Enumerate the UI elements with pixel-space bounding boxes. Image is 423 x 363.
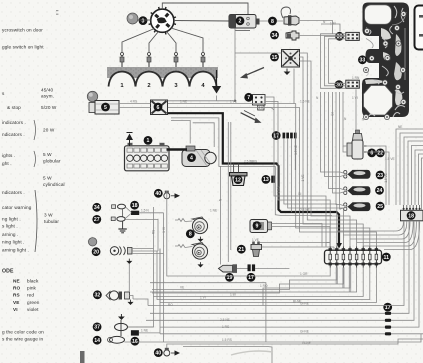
- wire label: [300, 272, 308, 276]
- side lamp C: [106, 291, 130, 300]
- svg-text:7: 7: [247, 95, 250, 101]
- wire label: [352, 76, 360, 80]
- svg-text:5/20 W: 5/20 W: [41, 105, 57, 110]
- headlamp B: [110, 247, 132, 256]
- wire: [167, 339, 423, 348]
- svg-text:1,5 N: 1,5 N: [141, 209, 149, 213]
- wire: [171, 118, 332, 216]
- wire: [125, 341, 164, 343]
- wire label: [152, 230, 156, 234]
- svg-text:5 W: 5 W: [43, 152, 52, 157]
- wire: [132, 248, 154, 250]
- svg-text:22: 22: [377, 151, 383, 157]
- ground (horn 2): [197, 262, 203, 267]
- node 14: [93, 336, 102, 345]
- wire: [171, 28, 203, 53]
- svg-text:globular: globular: [43, 159, 61, 164]
- wire: [130, 296, 134, 300]
- svg-text:ndicators .: ndicators .: [2, 132, 25, 137]
- wire: [159, 249, 161, 334]
- svg-text:45/40: 45/40: [41, 88, 54, 93]
- spark plug: [120, 53, 124, 68]
- svg-text:VE: VE: [13, 300, 19, 305]
- svg-text:1 BI: 1 BI: [230, 292, 236, 296]
- generator: [89, 101, 119, 115]
- svg-text:6: 6: [157, 105, 160, 111]
- connector 17b: [248, 264, 256, 271]
- connector 30b: [346, 80, 360, 88]
- wire: [234, 28, 236, 100]
- pointer arrow down: [241, 111, 262, 124]
- node 19: [225, 273, 234, 282]
- junction: [234, 100, 236, 102]
- wire: [139, 212, 163, 214]
- wire: [404, 137, 423, 205]
- wire: [132, 250, 158, 252]
- wire label: [300, 330, 309, 334]
- flasher 24: [344, 186, 371, 195]
- main feed cable: [168, 113, 342, 248]
- svg-text:27: 27: [94, 217, 100, 223]
- wire: [227, 122, 229, 262]
- wire: [333, 247, 335, 250]
- horn 1: [192, 217, 208, 234]
- svg-text:1 RS: 1 RS: [222, 325, 229, 329]
- svg-text:1 RS: 1 RS: [277, 186, 281, 193]
- wire: [343, 221, 406, 235]
- svg-text:NE: NE: [13, 279, 20, 284]
- flasher 25: [344, 202, 371, 211]
- wire: [391, 333, 423, 335]
- wire: [126, 207, 132, 213]
- wire label: [244, 159, 254, 163]
- wire: [286, 67, 288, 69]
- svg-text:GI: GI: [331, 112, 335, 115]
- wire: [168, 100, 235, 102]
- node 17c: [383, 303, 392, 312]
- svg-text:20 W: 20 W: [43, 128, 55, 133]
- wire: [321, 24, 340, 32]
- wire: [150, 312, 385, 314]
- svg-text:GI-NE: GI-NE: [300, 330, 309, 334]
- wire: [183, 346, 272, 363]
- wire: [162, 3, 248, 15]
- battery: [125, 143, 170, 171]
- svg-text:1 GR: 1 GR: [300, 272, 308, 276]
- wire: [288, 138, 344, 246]
- sensor 19: [219, 264, 238, 273]
- connector 16a: [131, 211, 139, 215]
- node 17: [272, 131, 281, 140]
- wire: [160, 333, 385, 335]
- node 8b: [186, 229, 195, 238]
- wire label: [277, 186, 281, 193]
- svg-text:ycroswitch on door: ycroswitch on door: [2, 28, 43, 33]
- svg-text:RO: RO: [13, 286, 20, 291]
- fuse box: [325, 247, 382, 268]
- wire: [340, 191, 348, 193]
- wire: [343, 92, 347, 146]
- wire: [230, 122, 232, 250]
- wire: [336, 92, 340, 205]
- plate lamp top: [164, 191, 180, 199]
- svg-text:40: 40: [155, 350, 161, 356]
- wire: [160, 249, 376, 303]
- wire: [340, 175, 348, 177]
- svg-text:red: red: [27, 293, 34, 298]
- wire: [122, 29, 155, 54]
- svg-text:1 NE: 1 NE: [180, 99, 187, 103]
- wire: [119, 103, 151, 105]
- spark plug: [147, 53, 151, 68]
- svg-text:32: 32: [95, 293, 101, 299]
- headlamp D: [108, 320, 128, 343]
- wire: [340, 92, 342, 209]
- svg-text:1.5 RS: 1.5 RS: [222, 338, 232, 342]
- ground (riser C): [126, 259, 132, 264]
- wire: [132, 253, 164, 255]
- node 27: [92, 215, 101, 224]
- battery cable: [167, 148, 188, 150]
- wire label: [141, 329, 148, 333]
- svg-text:1 RN: 1 RN: [352, 76, 360, 80]
- svg-text:arning light .: arning light .: [2, 248, 29, 253]
- connector 16: [131, 330, 139, 335]
- wire: [391, 221, 414, 320]
- wire label: [302, 341, 311, 345]
- wire label: [210, 209, 217, 213]
- wire: [163, 213, 165, 342]
- tail lamp assembly: [362, 3, 409, 120]
- ground (lamp D): [118, 314, 125, 320]
- wire: [367, 146, 387, 205]
- wire: [265, 97, 326, 247]
- wire: [396, 129, 423, 205]
- wire: [299, 53, 357, 247]
- svg-text:1 VE: 1 VE: [230, 99, 237, 103]
- svg-text:8: 8: [271, 19, 274, 25]
- wire label: [323, 20, 326, 24]
- wire label: [230, 292, 236, 296]
- wire: [139, 332, 160, 334]
- wire label: [352, 96, 358, 100]
- temperature sender: [286, 31, 299, 40]
- wire label: [300, 99, 310, 103]
- wire: [363, 221, 416, 246]
- node 6: [154, 103, 163, 112]
- wire: [128, 264, 130, 292]
- wire: [321, 92, 341, 172]
- svg-text:12: 12: [235, 177, 241, 183]
- front lamp A: [111, 204, 125, 221]
- svg-text:1: 1: [147, 138, 150, 144]
- node 9: [253, 221, 262, 230]
- wire: [260, 20, 284, 22]
- wire label: [298, 192, 301, 196]
- svg-text:40: 40: [155, 191, 161, 197]
- wire: [340, 172, 348, 174]
- oil pressure sender: [281, 7, 299, 26]
- svg-text:1 BI: 1 BI: [330, 22, 336, 26]
- svg-text:s the wire gauge in: s the wire gauge in: [2, 337, 44, 342]
- node 16: [131, 337, 140, 346]
- node 2: [236, 16, 245, 25]
- wire: [128, 326, 154, 328]
- wire: [152, 268, 343, 294]
- wire label: [316, 96, 319, 100]
- spark plug: [174, 53, 178, 68]
- plate lamp bottom: [164, 348, 180, 356]
- wire: [400, 133, 423, 205]
- svg-text:5: 5: [104, 105, 107, 111]
- ground (lamp C): [127, 300, 133, 305]
- wire: [325, 92, 341, 177]
- wire label: [398, 125, 402, 129]
- fuel gauge sender: [347, 130, 367, 159]
- svg-text:ODE: ODE: [2, 269, 14, 275]
- wire: [150, 268, 357, 293]
- svg-text:ggle switch on light: ggle switch on light: [2, 45, 44, 50]
- wire: [299, 57, 363, 247]
- wire label: [168, 303, 173, 307]
- connector 30a: [346, 32, 360, 40]
- svg-text:ning light .: ning light .: [2, 240, 25, 245]
- node 3: [139, 16, 148, 25]
- svg-text:20: 20: [93, 250, 99, 256]
- node 23: [376, 171, 385, 180]
- svg-text:black: black: [27, 279, 39, 284]
- node 40: [154, 348, 163, 357]
- node 37: [93, 323, 102, 332]
- wire: [291, 138, 293, 212]
- wire: [272, 226, 331, 228]
- starter motor: [182, 146, 216, 167]
- wire: [337, 221, 404, 231]
- switch 9: [250, 220, 272, 233]
- wire label: [300, 301, 309, 305]
- svg-text:green: green: [27, 300, 40, 305]
- svg-text:1 NE: 1 NE: [141, 329, 148, 333]
- wire: [150, 283, 266, 342]
- node 25: [376, 202, 385, 211]
- cap B: [88, 238, 96, 246]
- svg-text:1 VE: 1 VE: [252, 238, 259, 242]
- ground (battery): [126, 133, 133, 147]
- connector blocks 17c: [385, 312, 391, 336]
- wire: [326, 243, 330, 247]
- wire: [284, 138, 337, 246]
- wire: [419, 154, 423, 205]
- fuse leads: [337, 268, 350, 293]
- spark plug: [201, 53, 205, 68]
- horn 2: [192, 243, 208, 260]
- svg-text:NE: NE: [398, 125, 402, 129]
- svg-text:VE: VE: [180, 285, 184, 289]
- svg-text:13: 13: [263, 177, 269, 183]
- wire: [174, 20, 229, 23]
- wire label: [260, 284, 268, 288]
- node 4: [187, 153, 196, 162]
- node 22: [376, 149, 385, 158]
- svg-text:RS: RS: [152, 230, 156, 234]
- node 24: [375, 186, 384, 195]
- node 40t: [154, 189, 163, 198]
- wire: [164, 334, 422, 342]
- node 30a: [335, 32, 344, 41]
- svg-text:BI-NE: BI-NE: [293, 299, 302, 303]
- node 15: [270, 53, 279, 62]
- wire label: [130, 99, 137, 103]
- distributor: [149, 7, 176, 34]
- node 30b: [335, 80, 344, 89]
- svg-text:3: 3: [142, 18, 145, 24]
- wire: [264, 108, 274, 111]
- svg-text:34: 34: [272, 33, 278, 39]
- wire: [171, 121, 190, 144]
- wire: [299, 35, 346, 37]
- connector 7: [253, 95, 266, 106]
- wire: [357, 221, 414, 243]
- svg-text:18: 18: [408, 213, 414, 219]
- svg-text:ights .: ights .: [2, 153, 15, 158]
- svg-text:1 RO: 1 RO: [260, 284, 268, 288]
- svg-text:s light .: s light .: [2, 224, 18, 229]
- svg-text:11: 11: [384, 255, 390, 261]
- svg-text:cator warning: cator warning: [2, 205, 32, 210]
- svg-text:1 VI: 1 VI: [162, 227, 166, 233]
- svg-text:21: 21: [238, 247, 244, 253]
- wire: [350, 221, 410, 239]
- wire: [237, 268, 248, 270]
- wire: [329, 39, 346, 84]
- wire: [325, 36, 346, 86]
- svg-text:1 NE: 1 NE: [210, 209, 217, 213]
- wire: [293, 69, 295, 104]
- svg-text:1 VE: 1 VE: [301, 175, 305, 182]
- wire: [148, 221, 404, 306]
- svg-text:24: 24: [377, 188, 383, 194]
- distributor cap: [127, 13, 138, 24]
- wire: [152, 268, 337, 290]
- svg-text:2: 2: [239, 19, 242, 25]
- wire: [157, 251, 370, 300]
- wire: [422, 158, 423, 210]
- wire: [238, 164, 240, 173]
- svg-text:GI: GI: [298, 192, 301, 196]
- node 7: [244, 93, 253, 102]
- svg-text:ndicators .: ndicators .: [2, 190, 25, 195]
- svg-text:pink: pink: [27, 286, 37, 291]
- wire: [149, 32, 159, 54]
- wire: [355, 89, 357, 129]
- engine block: [107, 67, 218, 89]
- wire label: [252, 238, 259, 242]
- regulator box 6: [151, 100, 168, 115]
- svg-text:15: 15: [272, 55, 278, 61]
- wire: [329, 227, 331, 247]
- wire: [255, 268, 289, 270]
- connector 7b: [258, 105, 264, 110]
- scan smudge: [231, 351, 273, 355]
- wire: [235, 52, 282, 54]
- wire: [128, 297, 154, 328]
- wire: [263, 268, 350, 306]
- wire: [119, 107, 151, 109]
- svg-text:2.5 NE: 2.5 NE: [300, 208, 310, 212]
- wire: [340, 207, 348, 209]
- node 13: [262, 175, 271, 184]
- wire label: [385, 157, 395, 161]
- svg-text:VI: VI: [13, 307, 18, 312]
- svg-text:violet: violet: [27, 307, 39, 312]
- wire label: [141, 209, 149, 213]
- wire: [233, 164, 235, 173]
- wire label: [180, 285, 184, 289]
- ground (regulator): [284, 69, 291, 75]
- svg-text:37: 37: [94, 325, 100, 331]
- svg-text:1 GI: 1 GI: [256, 222, 262, 226]
- wire: [367, 152, 390, 205]
- wire label: [384, 173, 388, 183]
- svg-text:3 W: 3 W: [44, 213, 53, 218]
- wire: [216, 96, 218, 101]
- wire: [415, 150, 423, 205]
- wire: [193, 123, 215, 147]
- node 1: [144, 136, 153, 145]
- svg-text:indicators .: indicators .: [2, 120, 26, 125]
- node 34b: [92, 203, 101, 212]
- wire: [299, 21, 333, 34]
- node 18b: [407, 211, 416, 220]
- wire: [160, 326, 385, 328]
- wire: [343, 146, 347, 152]
- wire label: [200, 295, 206, 299]
- wire: [157, 219, 159, 251]
- svg-text:ght .: ght .: [2, 161, 12, 166]
- svg-text:1.5 NE: 1.5 NE: [300, 99, 310, 103]
- connector 13: [271, 176, 275, 183]
- wire label: [300, 208, 310, 212]
- brake switch 21: [251, 242, 262, 257]
- wire label: [220, 318, 230, 322]
- wire: [299, 61, 350, 247]
- wire label: [301, 175, 305, 182]
- svg-text:1.5 VE: 1.5 VE: [385, 157, 395, 161]
- svg-text:& stop: & stop: [7, 105, 21, 110]
- wire: [125, 214, 131, 219]
- wire: [167, 32, 177, 54]
- wire: [168, 108, 377, 247]
- wire label: [362, 118, 365, 122]
- wire: [146, 319, 385, 321]
- wire: [391, 221, 419, 327]
- regulator: [282, 50, 300, 68]
- node 12: [234, 175, 243, 184]
- node 6b: [367, 149, 376, 158]
- wire: [265, 102, 330, 247]
- svg-text:5 W: 5 W: [43, 176, 52, 181]
- flasher 23: [344, 170, 371, 179]
- wire label: [230, 99, 237, 103]
- svg-text:2.5 NE: 2.5 NE: [244, 159, 254, 163]
- node 21: [237, 245, 246, 254]
- svg-text:18: 18: [132, 203, 138, 209]
- wire: [133, 299, 148, 306]
- svg-text:8: 8: [189, 232, 192, 238]
- svg-text:2: 2: [147, 83, 150, 89]
- svg-text:cylindrical: cylindrical: [43, 182, 65, 187]
- wire: [412, 146, 423, 206]
